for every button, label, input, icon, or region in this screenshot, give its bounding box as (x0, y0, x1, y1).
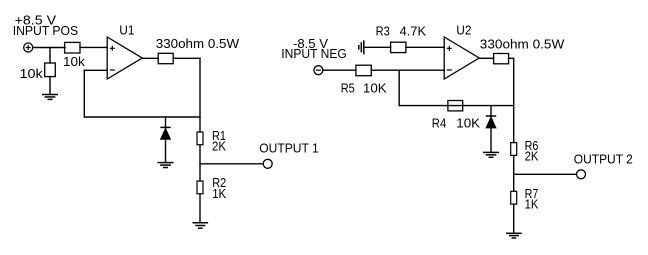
svg-text:2K: 2K (212, 139, 227, 153)
terminal input positive (24, 43, 33, 52)
wire output rail right lower (513, 204, 515, 233)
resistor R1 (197, 132, 203, 145)
wire op-amp output (142, 57, 158, 59)
wire op-amp output right (479, 57, 493, 59)
value 330ohm 0.5W left (156, 37, 240, 51)
wire feedback horizontal right (399, 105, 514, 107)
svg-text:U1: U1 (119, 23, 134, 37)
wire output 1 tap (200, 163, 263, 165)
wire junction drop (49, 48, 51, 64)
label R1 (212, 129, 226, 143)
svg-text:INPUT POS: INPUT POS (13, 24, 79, 38)
wire feedback vertical right (398, 70, 400, 105)
svg-text:OUTPUT 2: OUTPUT 2 (574, 153, 633, 167)
wire feedback horizontal (84, 116, 200, 118)
label R3 4.7K (376, 24, 427, 38)
svg-text:330ohm 0.5W: 330ohm 0.5W (480, 37, 565, 51)
wire output rail right middle (513, 155, 515, 191)
wire input to resistor (33, 47, 65, 49)
resistor 10k shunt (45, 63, 56, 77)
ground G6 sideways (359, 40, 364, 54)
resistor R6 (511, 143, 517, 156)
value 2K (212, 139, 227, 153)
wire output rail upper (199, 58, 201, 132)
svg-text:330ohm 0.5W: 330ohm 0.5W (156, 37, 240, 51)
resistor R2 (197, 181, 203, 194)
ground G2 (158, 163, 174, 168)
label OUTPUT 2 (574, 153, 633, 167)
terminal OUTPUT 2 (577, 170, 586, 179)
wire R5 to op-amp minus input (371, 69, 444, 71)
wire ground to R3 (364, 46, 391, 48)
svg-text:U2: U2 (456, 23, 471, 37)
terminal input negative (314, 66, 323, 75)
label -8.5 V (293, 37, 329, 51)
resistor 330ohm left (158, 53, 173, 63)
wire 330ohm to output node (173, 57, 200, 59)
label R2 (212, 176, 226, 190)
value 1K right (525, 197, 539, 211)
value 1K (212, 187, 227, 201)
label INPUT POS (13, 24, 79, 38)
op-amp U1 (107, 37, 142, 79)
svg-text:OUTPUT 1: OUTPUT 1 (259, 142, 318, 156)
svg-text:10K: 10K (456, 117, 480, 131)
svg-text:R3: R3 (376, 24, 390, 38)
ground G1 (42, 95, 58, 100)
ground G3 (193, 223, 209, 228)
label INPUT NEG (281, 47, 347, 61)
ground G5 (506, 233, 522, 238)
wire output rail lower (199, 194, 201, 223)
svg-text:10k: 10k (20, 67, 44, 81)
wire R3 to op-amp plus input (406, 46, 444, 48)
wire input to R5 (323, 69, 356, 71)
svg-text:2K: 2K (525, 150, 539, 164)
svg-text:4.7K: 4.7K (400, 24, 427, 38)
svg-text:1K: 1K (212, 187, 227, 201)
diode D1 (160, 117, 170, 162)
wire feedback vertical (83, 70, 85, 117)
label U2 (456, 23, 471, 37)
op-amp U2 (444, 37, 479, 79)
resistor R4 (448, 101, 463, 111)
label R6 (525, 139, 539, 153)
value 330ohm 0.5W right (480, 37, 565, 51)
label R4 10K (432, 117, 481, 131)
wire 330ohm to output rail right (509, 57, 514, 59)
terminal OUTPUT 1 (263, 159, 272, 168)
label +8.5 V (15, 14, 57, 28)
label R5 10K (341, 82, 388, 96)
label OUTPUT 1 (259, 142, 318, 156)
resistor 330ohm right (494, 54, 509, 64)
value 10k series (63, 55, 86, 69)
wire resistor to ground (49, 77, 51, 94)
diode D2 (486, 106, 496, 153)
svg-text:R5: R5 (341, 82, 355, 96)
wire output rail right upper (513, 58, 515, 142)
ground G4 (483, 152, 499, 157)
resistor R3 (391, 42, 406, 52)
value 10k shunt (20, 67, 44, 81)
svg-text:INPUT NEG: INPUT NEG (281, 47, 347, 61)
wire output 2 tap (514, 173, 577, 175)
svg-text:10K: 10K (363, 82, 387, 96)
resistor 10k series (65, 42, 80, 53)
label R7 (525, 187, 539, 201)
wire output rail middle (199, 145, 201, 181)
svg-text:R4: R4 (432, 117, 447, 131)
label U1 (119, 23, 134, 37)
value 2K right (525, 150, 539, 164)
wire resistor to op-amp plus input (80, 46, 107, 48)
wire inverting input (84, 69, 107, 71)
resistor R5 (356, 65, 371, 76)
svg-text:10k: 10k (63, 55, 86, 69)
resistor R7 (511, 191, 517, 204)
svg-text:1K: 1K (525, 197, 539, 211)
